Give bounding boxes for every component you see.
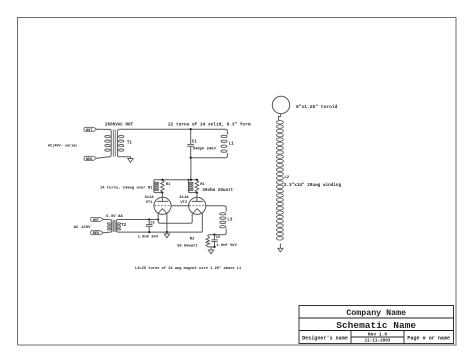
wire HOT tag to T1 primary top	[97, 128, 107, 130]
svg-text:R2: R2	[190, 237, 195, 241]
VT1 filament	[158, 209, 167, 214]
wire NEU tag to T2 primary	[103, 231, 108, 234]
wire VT2 grid to L3	[206, 206, 226, 210]
transformer T2 core	[112, 220, 114, 232]
wire L1 bottom to C1 bottom	[191, 157, 226, 159]
triode VT1 811A envelope	[154, 197, 171, 214]
wire VT1 filament right lead	[166, 213, 168, 232]
suppressor choke (right)	[188, 180, 197, 193]
svg-text:R1: R1	[200, 183, 205, 187]
wire suppressor top bus	[154, 179, 197, 181]
ground (grid leak)	[210, 247, 212, 250]
svg-text:HOT: HOT	[86, 129, 92, 133]
transformer T2 primary winding	[108, 220, 112, 233]
svg-text:Designer's name: Designer's name	[302, 335, 348, 341]
wire VT1 filament left lead down/over/up to VT2	[158, 213, 192, 223]
capacitor C3 filament bypass	[148, 220, 150, 225]
node HOT (AC mains hot, T1 primary)	[84, 127, 97, 131]
ground (T1 secondary)	[128, 159, 134, 163]
VT1 plate	[157, 200, 168, 202]
triode VT2 811A envelope	[189, 197, 206, 214]
resistor R1 (left)	[161, 180, 165, 193]
junction filament ground	[166, 231, 168, 233]
svg-text:C3: C3	[150, 222, 154, 226]
inductor L3 feedback winding	[225, 210, 227, 212]
capacitor C2 grid leak bypass	[214, 235, 216, 240]
wire T2 secondary bottom (filament return)	[118, 231, 202, 233]
wire T2 secondary top to filaments	[118, 219, 158, 221]
resistor R1 (right)	[195, 180, 199, 193]
wire HOT tag to T2 primary	[103, 218, 108, 220]
node NEU (AC mains neutral, T1 primary)	[84, 156, 97, 160]
svg-text:NEU: NEU	[86, 158, 92, 162]
ground (secondary base)	[278, 248, 283, 252]
wire NEU tag to T1 primary bottom	[97, 157, 107, 158]
svg-text:1.0nF 6kV: 1.0nF 6kV	[216, 243, 237, 248]
wire grid leak bottom	[208, 246, 215, 248]
wire VT2 filament right lead	[201, 213, 203, 232]
svg-text:NEU: NEU	[93, 232, 99, 236]
svg-text:11-11-2003: 11-11-2003	[365, 339, 391, 344]
svg-text:AC 120V: AC 120V	[74, 226, 91, 230]
svg-text:C2: C2	[216, 236, 220, 240]
svg-text:R1: R1	[166, 183, 171, 187]
resistor R2 grid leak	[208, 235, 210, 236]
svg-text:T2: T2	[121, 224, 127, 228]
svg-text:C1: C1	[192, 140, 198, 144]
svg-text:VT2: VT2	[180, 201, 188, 205]
toroid top load	[272, 96, 289, 113]
VT2 grid (dashed)	[189, 205, 205, 207]
junction VT1 filament left	[157, 218, 159, 220]
junction feed/top bus	[190, 179, 192, 181]
wire suppressor to VT1 plate	[161, 193, 163, 202]
transformer T1 core	[112, 129, 114, 156]
wire L3 bottom to grid leak	[210, 234, 225, 236]
junction at C1 top	[190, 128, 192, 130]
transformer T1 primary winding	[107, 129, 112, 157]
inductor L2 secondary winding	[276, 121, 283, 124]
svg-text:L3: L3	[227, 218, 233, 222]
transformer T1 secondary winding	[117, 129, 130, 158]
svg-text:30ohm 20watt: 30ohm 20watt	[202, 188, 233, 193]
transformer T2 secondary winding	[116, 220, 118, 233]
wire grid tie VT1-VT2	[171, 205, 189, 207]
title block	[299, 306, 454, 344]
svg-text:AC(40V- variac: AC(40V- variac	[48, 143, 77, 148]
svg-text:2000VAC HOT: 2000VAC HOT	[105, 122, 134, 127]
VT2 plate	[192, 200, 203, 202]
VT1 grid (dashed)	[155, 205, 171, 207]
inductor L1 primary coil	[225, 129, 227, 134]
svg-text:22 turns of 14 solid, 6.3" for: 22 turns of 14 solid, 6.3" form	[168, 122, 251, 128]
wire L2 bottom to ground	[279, 243, 281, 248]
wire toroid to L2	[279, 114, 281, 121]
svg-text:6.3V 8A: 6.3V 8A	[106, 215, 123, 219]
svg-text:Company Name: Company Name	[346, 309, 406, 318]
capacitor C1	[190, 129, 192, 144]
wire suppressor to VT2 plate	[196, 193, 198, 202]
svg-text:3.3"x14" 28awg winding: 3.3"x14" 28awg winding	[284, 183, 342, 188]
junction C3 top	[148, 218, 150, 220]
wire T1 secondary top to L1 (HV bus)	[119, 128, 225, 130]
VT2 filament	[193, 209, 202, 214]
wire tank to plate suppressors	[190, 158, 192, 180]
svg-text:811A: 811A	[179, 196, 189, 200]
ground (filament center)	[166, 232, 168, 234]
svg-text:811A: 811A	[145, 196, 155, 200]
svg-text:VT1: VT1	[146, 201, 154, 205]
svg-text:5k 50watt: 5k 50watt	[177, 243, 198, 248]
svg-text:L1: L1	[229, 142, 235, 146]
svg-text:HOT: HOT	[93, 219, 99, 223]
svg-text:T1: T1	[127, 141, 133, 145]
junction C3 bottom	[148, 231, 150, 233]
junction at C1 bottom	[190, 157, 192, 159]
node NEU (AC 120V neutral, T2 primary)	[91, 231, 104, 235]
svg-text:1.0nF 2kV: 1.0nF 2kV	[138, 235, 159, 240]
svg-text:L2: L2	[284, 176, 289, 180]
svg-text:Schematic Name: Schematic Name	[336, 320, 416, 331]
svg-text:Rev 1.0: Rev 1.0	[368, 332, 388, 338]
svg-text:L3=25 turns of 24 awg magnet w: L3=25 turns of 24 awg magnet wire 1.25" …	[135, 266, 242, 271]
node HOT (AC 120V hot, T2 primary)	[91, 217, 104, 221]
junction C2 top	[213, 234, 215, 236]
suppressor choke (14 turns over R1), left	[154, 180, 163, 193]
svg-text:Page # or name: Page # or name	[407, 335, 450, 341]
svg-text:6"x1.25" toroid: 6"x1.25" toroid	[296, 104, 338, 110]
svg-text:14 turns, 14awg over R1: 14 turns, 14awg over R1	[100, 185, 153, 190]
svg-text:940pF 20kV: 940pF 20kV	[193, 147, 217, 152]
